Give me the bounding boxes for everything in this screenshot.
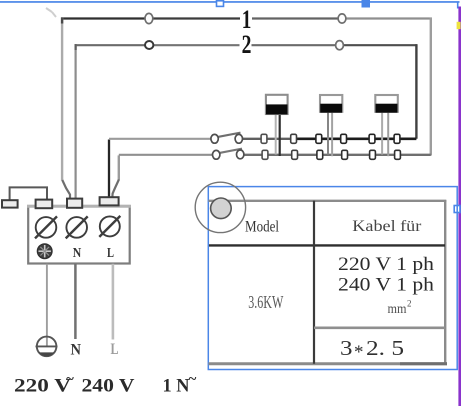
lug 1 (36, 200, 53, 209)
svg-text:Kabel für: Kabel für (352, 218, 422, 235)
svg-text:2: 2 (242, 30, 252, 59)
wire 2 (75, 44, 418, 198)
table border right (444, 200, 446, 365)
connector X2 on wire 1 (338, 14, 346, 23)
text mm2 (388, 299, 412, 317)
table border bottom dark segment (400, 362, 447, 365)
svg-text:L: L (111, 341, 119, 358)
table border top (209, 200, 447, 202)
terminal block TB1 (28, 206, 130, 264)
switch S1 (211, 133, 243, 144)
wire L down (112, 264, 115, 340)
svg-text:~: ~ (189, 372, 197, 388)
lug 2 (67, 199, 82, 208)
table border bottom (209, 362, 448, 365)
screw 2 (66, 216, 88, 238)
wire PE down (46, 264, 48, 346)
heating element E2 (320, 95, 342, 156)
jumper PE (10, 187, 47, 200)
wire 1 (61, 17, 432, 198)
svg-text:240 V: 240 V (82, 375, 135, 396)
terminal A2 (291, 134, 297, 143)
connector X3 on wire 2 (145, 41, 153, 49)
wire N down (74, 264, 77, 339)
table column divider (313, 201, 315, 364)
svg-text:3: 3 (340, 336, 353, 360)
svg-text:240 V 1 ph: 240 V 1 ph (338, 275, 435, 296)
svg-text:~: ~ (66, 372, 74, 388)
svg-text:2: 2 (407, 299, 412, 309)
selection handle H2 (solid) (362, 0, 371, 8)
callout circle inner (211, 198, 232, 219)
lug 3 (100, 197, 119, 205)
svg-text:1 N: 1 N (163, 375, 190, 396)
svg-text:Model: Model (245, 219, 279, 236)
svg-text:3.6KW: 3.6KW (248, 292, 283, 312)
voltage rating text (14, 372, 197, 397)
PE screw indicator (37, 244, 52, 259)
svg-text:*: * (354, 342, 364, 363)
selection handle H1 (hollow) (217, 1, 224, 7)
svg-text:L: L (107, 246, 114, 261)
window edge (purple) (458, 7, 461, 406)
terminal A5 (369, 134, 375, 143)
bus A (upper) (109, 139, 416, 198)
heating element E1 (266, 95, 288, 156)
ground clamp symbol (36, 337, 58, 357)
screw 1 (35, 216, 57, 238)
svg-text:220 V: 220 V (14, 375, 71, 396)
stray mark (artifact) (46, 8, 56, 17)
terminal B2 (292, 150, 298, 159)
terminal A4 (341, 134, 347, 143)
svg-text:220 V 1 ph: 220 V 1 ph (338, 254, 435, 275)
terminal B1 (262, 150, 268, 159)
terminal A1 (261, 134, 267, 143)
connector X4 on wire 2 (336, 41, 344, 50)
switch S2 (213, 149, 244, 160)
terminal B4 (342, 150, 348, 159)
table selection rect (blue) (208, 187, 457, 370)
svg-text:N: N (73, 246, 82, 261)
terminal A3 (316, 134, 322, 143)
table header underline (209, 244, 445, 246)
terminal B6 (395, 150, 401, 159)
selection handle H3 (hollow, right) (454, 206, 460, 213)
window edge marker (yellow) (457, 22, 461, 29)
selection border top (blue) (0, 1, 460, 8)
heating element E3 (375, 95, 398, 156)
bus B (lower) (112, 155, 431, 198)
screw 3 (99, 216, 120, 237)
table row divider (314, 326, 445, 329)
connector X1 on wire 1 (145, 13, 153, 23)
terminal B3 (317, 150, 323, 159)
svg-text:2. 5: 2. 5 (366, 336, 404, 360)
svg-text:mm: mm (388, 301, 407, 316)
terminal B5 (370, 150, 376, 159)
callout circle outer (195, 182, 245, 232)
svg-text:N: N (71, 342, 82, 359)
lug PE external (2, 200, 18, 207)
terminal A6 (394, 134, 400, 143)
